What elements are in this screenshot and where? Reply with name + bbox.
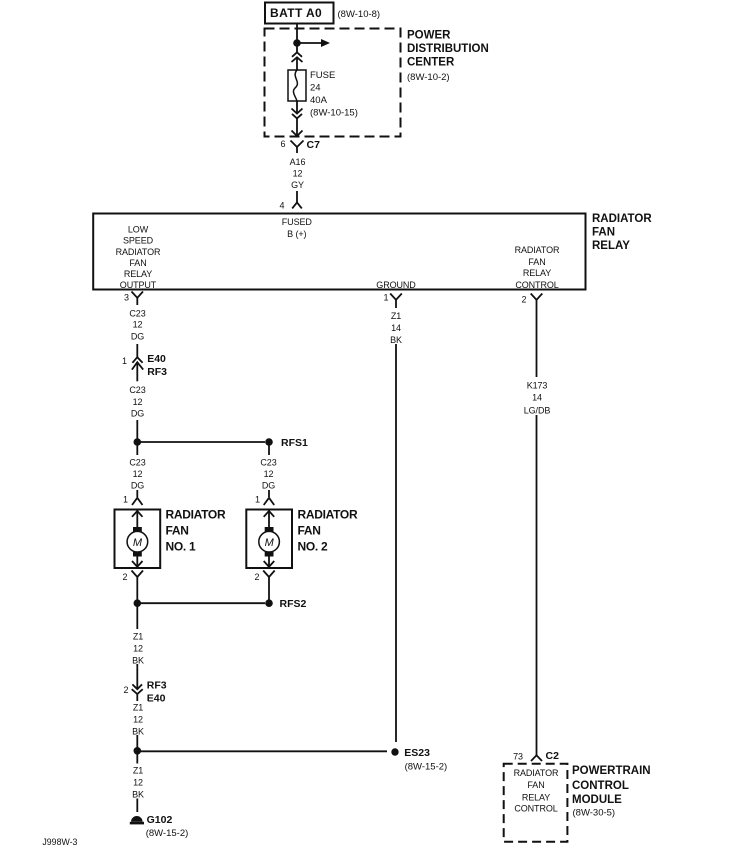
svg-text:POWERTRAIN: POWERTRAIN: [572, 765, 651, 777]
svg-text:RFS1: RFS1: [281, 437, 308, 449]
inline connector RF3 E40 pin 2: [124, 668, 167, 705]
svg-text:RELAY: RELAY: [523, 268, 551, 278]
radiator fan relay control pin label: [515, 245, 560, 290]
svg-text:73: 73: [513, 752, 523, 762]
wire DG to connector E40: [136, 344, 138, 357]
svg-text:FUSE: FUSE: [310, 70, 335, 81]
svg-text:12: 12: [133, 397, 143, 407]
wire label Z1 12 BK: [127, 764, 148, 800]
fan 2 pin 1 connector: [255, 495, 274, 506]
svg-text:2: 2: [255, 572, 260, 582]
svg-text:RF3: RF3: [147, 366, 167, 378]
svg-text:FAN: FAN: [527, 780, 544, 790]
relay name label: [592, 213, 652, 252]
wire DG to node: [136, 420, 138, 442]
svg-text:J998W-3: J998W-3: [42, 837, 77, 847]
pin 3 connector: [124, 292, 143, 306]
svg-text:CONTROL: CONTROL: [515, 280, 558, 290]
fan 1 pin 2 connector: [123, 571, 143, 604]
connector C2 pin 73: [513, 750, 559, 762]
ground label: [376, 280, 416, 290]
powertrain control module label: [572, 765, 651, 819]
svg-text:LG/DB: LG/DB: [524, 405, 551, 415]
svg-text:FUSED: FUSED: [282, 217, 313, 227]
ground wire Z1 14 BK: [395, 306, 397, 742]
node RFS1: [265, 437, 308, 449]
svg-text:GY: GY: [291, 180, 304, 190]
junction node left: [134, 438, 142, 446]
svg-text:E40: E40: [147, 353, 166, 365]
svg-text:RADIATOR: RADIATOR: [166, 508, 226, 522]
svg-text:C7: C7: [307, 139, 321, 151]
svg-text:BK: BK: [132, 655, 144, 665]
node RFS2: [265, 598, 306, 610]
svg-text:CENTER: CENTER: [407, 57, 455, 69]
svg-text:40A: 40A: [310, 95, 328, 106]
radiator fan no 1 motor box: [115, 510, 161, 569]
svg-text:12: 12: [133, 319, 143, 329]
power distribution center dashed box: [265, 29, 401, 137]
svg-text:14: 14: [532, 392, 542, 402]
svg-text:1: 1: [384, 293, 389, 303]
wire to RFS2: [137, 602, 265, 604]
radiator fan no 2 motor box: [246, 510, 292, 569]
svg-text:14: 14: [391, 323, 401, 333]
svg-text:CONTROL: CONTROL: [572, 780, 629, 792]
svg-text:(8W-30-5): (8W-30-5): [573, 808, 616, 819]
svg-text:RADIATOR: RADIATOR: [515, 245, 560, 255]
svg-text:NO. 2: NO. 2: [298, 540, 328, 554]
svg-text:3: 3: [124, 293, 129, 303]
relay control wire K173: [536, 306, 538, 755]
svg-text:4: 4: [280, 200, 285, 210]
svg-text:Z1: Z1: [133, 765, 143, 775]
svg-text:6: 6: [281, 139, 286, 149]
svg-text:DG: DG: [131, 332, 144, 342]
power distribution center label: [407, 30, 489, 84]
node ES23: [391, 747, 447, 772]
svg-text:BK: BK: [390, 335, 402, 345]
svg-text:(8W-10-8): (8W-10-8): [338, 9, 381, 20]
svg-text:C23: C23: [260, 457, 276, 467]
wire below left node: [136, 442, 138, 497]
fan 1 pin 1 connector: [123, 495, 142, 506]
fuse 24 40A: [288, 70, 306, 101]
svg-text:RF3: RF3: [147, 680, 167, 692]
svg-text:K173: K173: [527, 380, 548, 390]
svg-text:DISTRIBUTION: DISTRIBUTION: [407, 43, 489, 55]
svg-text:RADIATOR: RADIATOR: [116, 247, 161, 257]
arrow to other circuits: [297, 39, 330, 47]
svg-text:NO. 1: NO. 1: [166, 540, 196, 554]
svg-text:RELAY: RELAY: [124, 269, 152, 279]
svg-text:24: 24: [310, 83, 321, 94]
wire to RFS1: [137, 441, 265, 443]
powertrain control module dashed box: [504, 764, 568, 842]
svg-text:B (+): B (+): [287, 229, 306, 239]
wire label A16 12 GY: [290, 157, 306, 190]
svg-text:2: 2: [124, 685, 129, 695]
svg-text:12: 12: [293, 168, 303, 178]
svg-text:C23: C23: [129, 457, 145, 467]
radiator fan no 2 label: [298, 508, 358, 554]
svg-text:DG: DG: [131, 408, 144, 418]
svg-text:RADIATOR: RADIATOR: [298, 508, 358, 522]
wire label C23 12 DG right: [257, 455, 281, 490]
svg-text:RADIATOR: RADIATOR: [514, 768, 559, 778]
svg-text:(8W-15-2): (8W-15-2): [146, 828, 189, 839]
svg-text:FAN: FAN: [166, 524, 189, 538]
svg-text:BK: BK: [132, 726, 144, 736]
svg-text:A16: A16: [290, 157, 306, 167]
svg-text:OUTPUT: OUTPUT: [120, 280, 157, 290]
wire to PDC exit with arrowhead: [292, 118, 303, 136]
junction node left lower: [134, 599, 142, 607]
svg-text:12: 12: [133, 469, 143, 479]
svg-text:G102: G102: [147, 814, 173, 826]
fused B(+) label: [282, 217, 313, 239]
wire label C23 12 DG: [129, 385, 145, 419]
wire junction to connector: [296, 43, 298, 52]
wire GY to pin 4: [296, 191, 298, 202]
pin 1 ground connector: [384, 293, 402, 307]
pin 4 connector: [280, 200, 302, 210]
svg-text:1: 1: [255, 495, 260, 505]
wire label C23 12 DG: [129, 308, 145, 341]
wire below RFS1 node: [268, 442, 270, 497]
svg-text:Z1: Z1: [391, 311, 401, 321]
svg-text:12: 12: [133, 777, 143, 787]
svg-text:RELAY: RELAY: [592, 240, 630, 252]
svg-text:C2: C2: [546, 750, 560, 762]
radiator fan relay box: [93, 214, 585, 290]
battery feed box BATT A0: [265, 3, 334, 24]
svg-text:RFS2: RFS2: [280, 598, 307, 610]
pin 2 connector: [522, 294, 543, 307]
svg-text:RELAY: RELAY: [522, 792, 550, 802]
reference (8W-10-8): [338, 9, 381, 20]
svg-text:MODULE: MODULE: [572, 794, 622, 806]
low speed radiator fan relay output label: [116, 224, 161, 290]
inline connector above fuse: [292, 52, 303, 70]
wire label C23 12 DG left: [126, 455, 149, 490]
wire label Z1 12 BK: [127, 629, 148, 665]
connector C7 pin 6: [281, 139, 321, 153]
svg-text:2: 2: [522, 295, 527, 305]
inline connector E40 RF3 pin 1: [122, 353, 167, 381]
svg-text:C23: C23: [129, 385, 145, 395]
junction node dot: [293, 39, 301, 47]
inline connector below fuse: [292, 101, 303, 118]
wire from BATT A0 to junction: [296, 24, 298, 44]
junction node bottom left: [134, 747, 142, 755]
svg-text:(8W-10-2): (8W-10-2): [407, 72, 450, 83]
svg-text:BATT A0: BATT A0: [270, 6, 322, 20]
fan 2 pin 2 connector: [255, 571, 275, 604]
wire label K173 14 LG/DB: [518, 377, 556, 415]
svg-text:1: 1: [122, 356, 127, 366]
svg-text:CONTROL: CONTROL: [514, 804, 557, 814]
svg-text:RADIATOR: RADIATOR: [592, 213, 652, 225]
svg-text:(8W-10-15): (8W-10-15): [310, 108, 358, 119]
radiator fan relay control label: [514, 768, 559, 814]
svg-text:BK: BK: [132, 789, 144, 799]
svg-text:Z1: Z1: [133, 631, 143, 641]
svg-text:FAN: FAN: [129, 258, 146, 268]
svg-text:C23: C23: [129, 308, 145, 318]
drawing number J998W-3: [42, 837, 77, 847]
ground G102: [130, 814, 188, 839]
wire label Z1 14 BK: [385, 308, 407, 345]
svg-text:FAN: FAN: [298, 524, 321, 538]
fuse label: [310, 70, 358, 119]
svg-text:(8W-15-2): (8W-15-2): [405, 761, 448, 772]
svg-text:M: M: [133, 537, 143, 549]
svg-text:1: 1: [123, 495, 128, 505]
svg-text:POWER: POWER: [407, 30, 451, 42]
svg-text:12: 12: [133, 714, 143, 724]
wire below RFS2 junction: [136, 603, 138, 667]
svg-text:E40: E40: [147, 692, 166, 704]
svg-text:SPEED: SPEED: [123, 236, 154, 246]
svg-text:M: M: [265, 537, 275, 549]
svg-text:Z1: Z1: [133, 702, 143, 712]
svg-text:LOW: LOW: [128, 224, 149, 234]
svg-text:FAN: FAN: [528, 257, 545, 267]
radiator fan no 1 label: [166, 508, 226, 554]
svg-text:GROUND: GROUND: [376, 280, 416, 290]
wire below bottom left node: [136, 751, 138, 812]
svg-text:ES23: ES23: [404, 747, 430, 759]
svg-text:2: 2: [123, 572, 128, 582]
svg-text:FAN: FAN: [592, 227, 615, 239]
svg-text:DG: DG: [131, 480, 144, 490]
svg-text:12: 12: [133, 643, 143, 653]
wire label Z1 12 BK: [127, 700, 148, 751]
svg-text:DG: DG: [262, 480, 275, 490]
wire to ES23: [137, 750, 387, 752]
svg-text:12: 12: [264, 469, 274, 479]
